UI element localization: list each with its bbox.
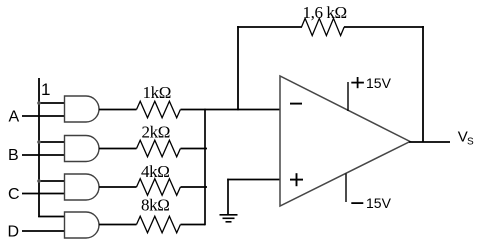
summing bus vertical wire (204, 109, 206, 226)
AND gate U4 (row D) (65, 212, 100, 238)
resistor R2 2k (137, 140, 181, 157)
op-amp plus marker (290, 173, 303, 186)
AND gate U3 (row C) (65, 174, 100, 200)
ground wire to noninverting input (227, 179, 281, 181)
wire gate1 top input from node 1 (39, 102, 65, 104)
+15V supply stub (347, 82, 349, 111)
svg-text:15V: 15V (366, 75, 392, 91)
wire gate3 top input from node 1 (39, 180, 65, 182)
output wire (409, 141, 450, 143)
resistor R1 1k (137, 101, 181, 118)
-15V supply stub (345, 174, 347, 203)
AND gate U2 (row B) (65, 136, 100, 162)
wire gate2 output to R2 (99, 148, 137, 150)
wire input C (22, 193, 65, 195)
feedback wire top left segment (237, 26, 302, 28)
AND gate U1 (row A) (65, 96, 100, 122)
wire gate1 output to R1 (99, 109, 137, 111)
wire R4 to summing bus corner (181, 224, 206, 226)
label -15V (351, 202, 363, 204)
svg-text:8kΩ: 8kΩ (141, 195, 169, 214)
wire R2 to summing bus (181, 148, 208, 150)
resistor R4 8k (137, 216, 181, 233)
wire input A (22, 115, 65, 117)
svg-text:S: S (467, 137, 474, 148)
svg-text:2kΩ: 2kΩ (142, 123, 170, 142)
feedback wire right vertical down to output (422, 26, 424, 142)
junction dot gate2 tap (37, 140, 41, 144)
wire input D (22, 230, 65, 232)
svg-text:15V: 15V (366, 195, 392, 211)
svg-text:4kΩ: 4kΩ (141, 162, 169, 181)
op-amp minus marker (290, 103, 302, 105)
svg-text:1,6 kΩ: 1,6 kΩ (303, 3, 347, 22)
op-amp U5 triangle (280, 76, 410, 206)
wire R3 to summing bus (181, 186, 208, 188)
svg-text:D: D (8, 223, 20, 240)
svg-text:1kΩ: 1kΩ (143, 83, 171, 102)
junction dot gate3 tap (37, 179, 41, 183)
wire gate4 top input elbow from node 1 (39, 215, 64, 218)
node 1 (logic-high bus vertical line) (38, 78, 40, 217)
svg-text:C: C (8, 186, 20, 203)
ground vertical wire (227, 179, 229, 215)
label +15V (351, 77, 364, 88)
resistor R3 4k (137, 179, 181, 196)
svg-text:A: A (9, 109, 20, 126)
wire gate2 top input from node 1 (39, 141, 65, 143)
wire R1 to summing node (181, 109, 282, 111)
junction dot gate1 tap (37, 101, 41, 105)
wire input B (22, 154, 65, 156)
svg-text:1: 1 (41, 80, 50, 99)
wire gate4 output to R4 (99, 224, 137, 226)
feedback wire left vertical (237, 26, 239, 110)
feedback wire top right segment (344, 26, 424, 28)
ground symbol (220, 215, 238, 222)
resistor R5 1.6k feedback (302, 18, 345, 35)
svg-text:B: B (8, 147, 19, 164)
wire gate3 output to R3 (99, 186, 137, 188)
